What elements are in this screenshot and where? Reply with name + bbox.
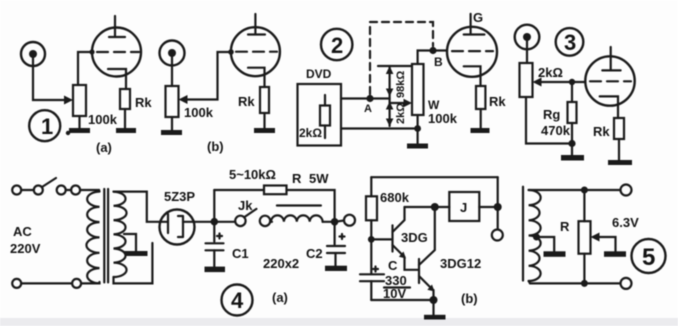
svg-text:5: 5 xyxy=(642,244,655,271)
svg-text:2kΩ: 2kΩ xyxy=(299,126,322,140)
svg-text:3: 3 xyxy=(564,30,576,55)
svg-text:1: 1 xyxy=(41,114,53,139)
svg-text:220V: 220V xyxy=(10,241,41,256)
svg-text:R: R xyxy=(292,171,302,186)
svg-text:C2: C2 xyxy=(306,246,323,261)
svg-text:2kΩ: 2kΩ xyxy=(538,65,563,80)
svg-text:3DG: 3DG xyxy=(401,230,428,245)
svg-text:Rk: Rk xyxy=(593,124,610,139)
svg-text:Rg: Rg xyxy=(543,107,560,122)
svg-text:(b): (b) xyxy=(207,139,224,154)
svg-text:(a): (a) xyxy=(272,290,288,305)
svg-text:R: R xyxy=(560,219,570,234)
svg-text:220x2: 220x2 xyxy=(263,256,299,271)
svg-text:DVD: DVD xyxy=(306,67,332,81)
svg-text:3DG12: 3DG12 xyxy=(440,256,481,271)
svg-text:Rk: Rk xyxy=(238,94,255,109)
svg-text:2: 2 xyxy=(331,33,343,58)
svg-text:10V: 10V xyxy=(383,286,406,301)
svg-text:W: W xyxy=(428,98,440,112)
svg-text:680k: 680k xyxy=(380,190,410,205)
svg-text:Jk: Jk xyxy=(238,198,253,213)
svg-text:100k: 100k xyxy=(184,105,214,120)
svg-text:Rk: Rk xyxy=(489,94,506,109)
svg-text:J: J xyxy=(460,200,467,215)
svg-text:100k: 100k xyxy=(428,111,458,126)
svg-text:A: A xyxy=(364,103,372,115)
svg-text:G: G xyxy=(473,10,483,25)
svg-text:C1: C1 xyxy=(232,246,249,261)
svg-text:6.3V: 6.3V xyxy=(612,215,639,230)
svg-text:5~10kΩ: 5~10kΩ xyxy=(229,167,276,182)
svg-text:100k: 100k xyxy=(88,112,118,127)
svg-text:Rk: Rk xyxy=(135,95,152,110)
svg-text:(a): (a) xyxy=(96,140,112,155)
svg-text:C: C xyxy=(388,258,398,273)
svg-text:4: 4 xyxy=(231,288,244,313)
svg-text:5Z3P: 5Z3P xyxy=(164,189,195,204)
svg-text:2kΩ: 2kΩ xyxy=(395,103,407,124)
svg-text:470k: 470k xyxy=(541,123,571,138)
svg-text:98kΩ: 98kΩ xyxy=(395,71,407,98)
svg-text:5W: 5W xyxy=(309,171,329,186)
svg-text:(b): (b) xyxy=(461,291,478,306)
svg-text:AC: AC xyxy=(13,224,32,239)
svg-text:B: B xyxy=(434,55,443,69)
